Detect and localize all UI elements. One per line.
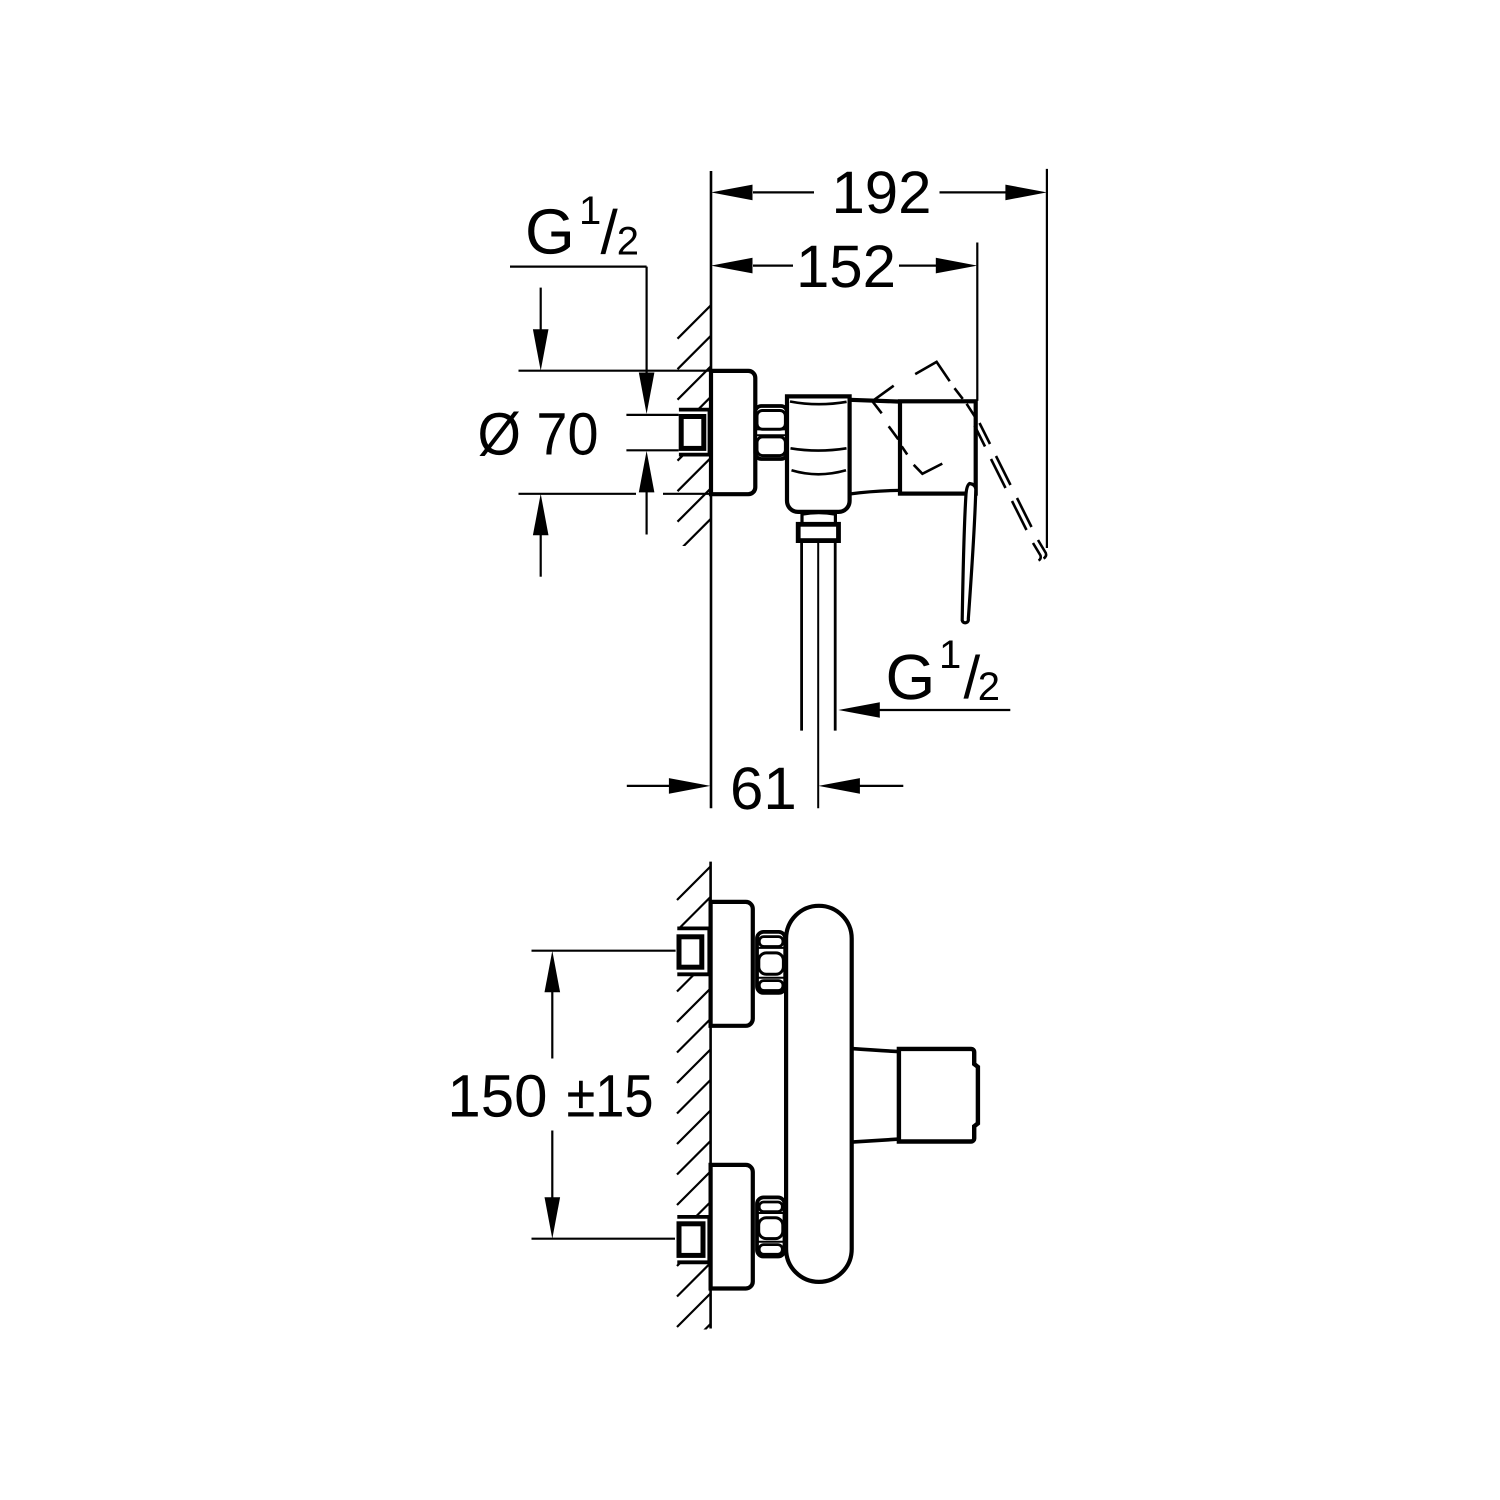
mixer body capsule (lower view) bbox=[786, 906, 852, 1282]
raised lever position (dashed) bbox=[873, 362, 1046, 561]
svg-text:2: 2 bbox=[617, 220, 639, 264]
hex union nut (upper view) bbox=[755, 406, 787, 459]
wall flange top (lower view) bbox=[711, 902, 753, 1026]
svg-text:/: / bbox=[601, 199, 619, 268]
lever handle blade bbox=[962, 484, 976, 623]
label G 1/2 (top-left) bbox=[525, 189, 639, 268]
svg-text:G: G bbox=[886, 641, 936, 713]
square union nipple bottom (lower view) bbox=[679, 1224, 703, 1256]
hose coupling nut bbox=[798, 524, 838, 540]
svg-text:Ø 70: Ø 70 bbox=[478, 400, 599, 467]
svg-text:2: 2 bbox=[978, 665, 1000, 709]
cartridge collar (upper view) bbox=[850, 400, 900, 494]
svg-text:150: 150 bbox=[447, 1063, 547, 1130]
outlet neck (lower view) bbox=[852, 1049, 899, 1143]
wall (lower view) bbox=[709, 862, 712, 1329]
wall washer plate bottom (lower view) bbox=[677, 1217, 709, 1262]
wall washer plate top (lower view) bbox=[677, 928, 709, 974]
hex union nut bottom (lower view) bbox=[757, 1197, 785, 1256]
square union nipple (upper view) bbox=[681, 417, 704, 449]
wall flange escutcheon (upper view) bbox=[711, 371, 755, 494]
wall (upper view) bbox=[710, 171, 713, 808]
handle escutcheon block (upper view) bbox=[900, 401, 976, 493]
dimension G1/2 nipple leader bbox=[639, 267, 655, 535]
wall hatching lower bbox=[677, 866, 711, 1357]
square union nipple top (lower view) bbox=[679, 937, 702, 967]
dimension Ø70 bbox=[478, 288, 712, 577]
svg-text:1: 1 bbox=[579, 189, 601, 233]
shower hose bbox=[802, 541, 836, 809]
svg-text:152: 152 bbox=[796, 233, 896, 300]
dimension 192 bbox=[711, 159, 1047, 548]
leader line of hose G 1/2 bbox=[838, 702, 1010, 718]
svg-text:192: 192 bbox=[831, 159, 931, 226]
dimension 150 ±15 bbox=[447, 951, 675, 1239]
dimension 61 bbox=[627, 755, 904, 822]
wall washer plate (upper view) bbox=[679, 410, 710, 455]
hex union nut top (lower view) bbox=[757, 932, 785, 993]
dimension 152 bbox=[711, 233, 977, 401]
label G 1/2 (hose thread) bbox=[886, 633, 1001, 713]
wall flange bottom (lower view) bbox=[711, 1165, 753, 1289]
leader line of top G 1/2 bbox=[510, 266, 647, 268]
svg-text:1: 1 bbox=[939, 633, 961, 677]
svg-text:±15: ±15 bbox=[567, 1063, 654, 1130]
valve body (upper view) bbox=[787, 396, 850, 512]
wall hatching upper bbox=[678, 305, 712, 583]
svg-text:61: 61 bbox=[730, 755, 797, 822]
svg-text:G: G bbox=[525, 196, 575, 268]
supply pipe (upper view) bbox=[626, 414, 678, 416]
outlet end piece (lower view) bbox=[899, 1049, 978, 1142]
hose outlet step bbox=[802, 513, 835, 525]
